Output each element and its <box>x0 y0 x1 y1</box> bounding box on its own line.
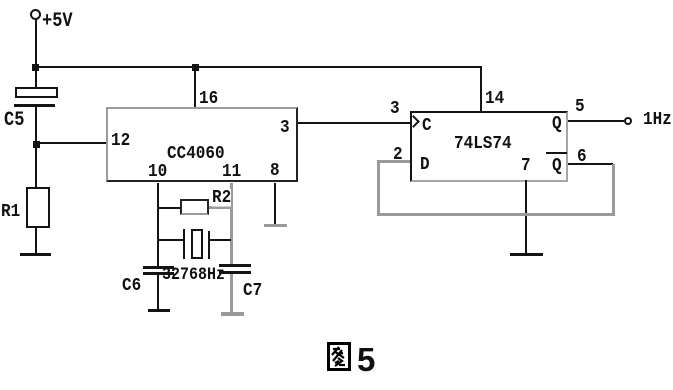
pin 3 label (74LS74 side) <box>390 100 400 118</box>
wire pin 11 vertical (gray) <box>230 183 233 266</box>
capacitor C5 <box>15 87 58 98</box>
wire pin 6 stub <box>568 163 613 165</box>
74LS74 label <box>454 135 512 153</box>
+5V terminal <box>30 9 41 20</box>
C7 label <box>243 282 262 300</box>
C5 label <box>4 112 24 130</box>
R1 label <box>1 203 20 221</box>
pin C label <box>422 117 432 135</box>
node junction C5/R1/pin12 <box>33 141 40 148</box>
capacitor C7 <box>219 264 251 267</box>
+5V label <box>42 13 73 31</box>
wire pin 3 to clock input <box>298 122 411 124</box>
pin 14 label <box>485 90 504 108</box>
resistor R1 <box>26 187 50 228</box>
ground below C7 (gray) <box>221 312 244 316</box>
ground below pin 8 (gray) <box>264 224 287 227</box>
ground below pin 7 <box>510 253 543 256</box>
pin 12 label <box>111 132 130 150</box>
1Hz label <box>643 111 672 129</box>
CC4060 label <box>167 145 225 163</box>
pin 7 label <box>521 157 531 175</box>
wire bus to C5 <box>35 68 37 87</box>
wire pin 7 to ground <box>525 180 527 254</box>
pin 3 label (CC4060) <box>280 119 290 137</box>
crystal Y1 32768Hz <box>158 239 183 241</box>
wire feedback bottom horizontal (gray) <box>377 213 615 216</box>
Qbar overline <box>546 152 567 154</box>
pin 11 label <box>222 163 241 181</box>
pin D label <box>420 156 430 174</box>
ground below R1 <box>20 253 51 256</box>
ground below C6 <box>148 309 170 312</box>
wire bus to pin 14 <box>480 66 482 112</box>
wire pin 2 stub (gray) <box>380 160 410 163</box>
pin 10 label <box>148 163 167 181</box>
pin Q label <box>552 115 562 133</box>
wire from +5V terminal down to bus <box>35 19 37 67</box>
C6 label <box>122 277 141 295</box>
capacitor C6 <box>143 266 174 269</box>
node junction at +5V bus <box>32 64 39 71</box>
wire pin 5 output <box>568 120 624 122</box>
figure caption 图5 <box>327 342 351 371</box>
resistor R2 <box>158 207 180 209</box>
node junction at pin16 branch <box>192 64 199 71</box>
wire R1 to ground <box>35 228 37 255</box>
wire pin 10 vertical <box>157 183 159 267</box>
32768Hz value label <box>162 266 225 284</box>
pin 8 label <box>270 162 280 180</box>
pin Qbar label <box>552 157 562 175</box>
pin 16 label <box>199 90 218 108</box>
IC U1 CC4060 <box>106 107 298 182</box>
pin 2 label <box>393 146 403 164</box>
wire C5 to R1 <box>35 107 37 187</box>
wire bus to pin 16 <box>194 66 196 108</box>
wire feedback left vertical (gray) <box>377 160 380 216</box>
clock input wedge <box>407 115 420 128</box>
wire junction to pin 12 <box>37 142 106 144</box>
pin 5 label <box>575 98 585 116</box>
pin 6 label <box>577 148 587 166</box>
output terminal <box>624 117 632 125</box>
wire top bus horizontal <box>35 66 482 68</box>
R2 label <box>212 189 231 207</box>
wire pin 8 to ground <box>274 183 276 224</box>
wire feedback right vertical (gray) <box>612 164 615 216</box>
IC U2 74LS74 <box>410 111 568 182</box>
